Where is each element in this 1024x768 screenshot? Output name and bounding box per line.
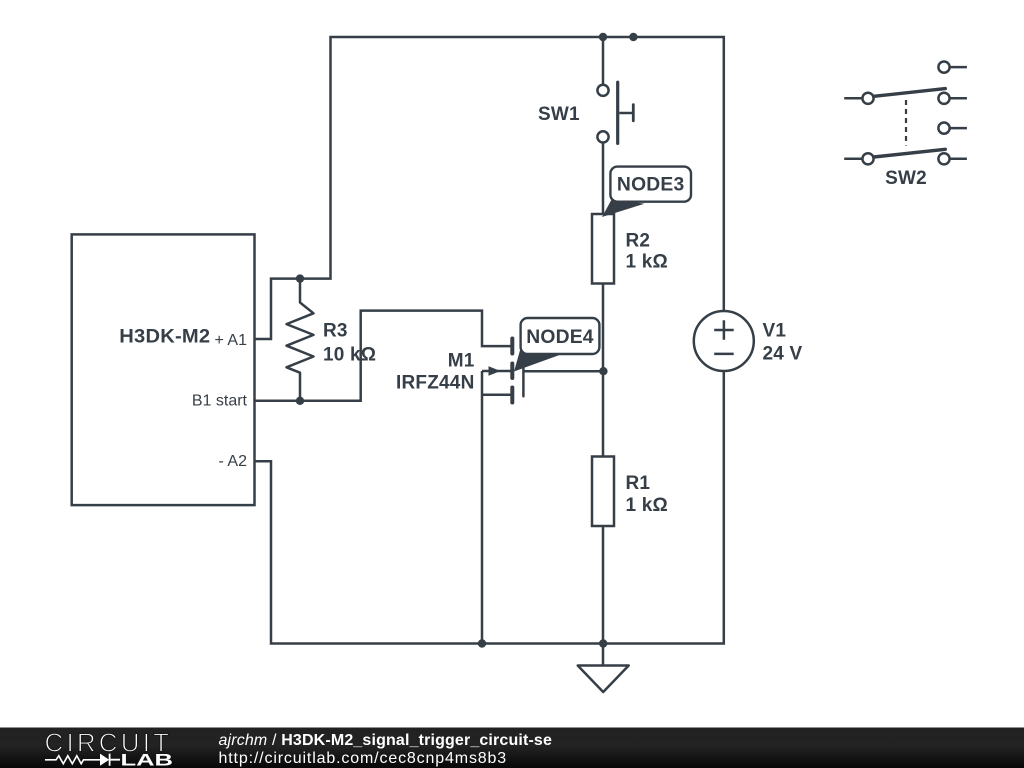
svg-text:IRFZ44N: IRFZ44N <box>396 373 474 394</box>
svg-text:10 kΩ: 10 kΩ <box>323 345 376 366</box>
svg-text:R3: R3 <box>323 321 348 342</box>
svg-text:V1: V1 <box>763 321 787 342</box>
svg-text:R2: R2 <box>626 230 651 251</box>
svg-text:R1: R1 <box>626 473 651 494</box>
svg-text:1 kΩ: 1 kΩ <box>626 495 668 516</box>
svg-text:- A2: - A2 <box>219 453 248 470</box>
svg-text:LAB: LAB <box>121 752 174 768</box>
svg-text:1 kΩ: 1 kΩ <box>626 251 668 272</box>
svg-text:ajrchm / H3DK-M2_signal_trigge: ajrchm / H3DK-M2_signal_trigger_circuit-… <box>219 732 553 749</box>
svg-text:B1 start: B1 start <box>192 392 248 409</box>
svg-text:SW2: SW2 <box>885 168 927 189</box>
svg-text:H3DK-M2: H3DK-M2 <box>119 327 210 348</box>
svg-text:NODE3: NODE3 <box>617 175 685 196</box>
svg-text:http://circuitlab.com/cec8cnp4: http://circuitlab.com/cec8cnp4ms8b3 <box>219 750 508 767</box>
svg-text:+ A1: + A1 <box>215 332 248 349</box>
svg-text:SW1: SW1 <box>538 104 580 125</box>
svg-text:NODE4: NODE4 <box>526 327 594 348</box>
svg-text:24 V: 24 V <box>763 344 803 365</box>
svg-text:M1: M1 <box>448 351 475 372</box>
